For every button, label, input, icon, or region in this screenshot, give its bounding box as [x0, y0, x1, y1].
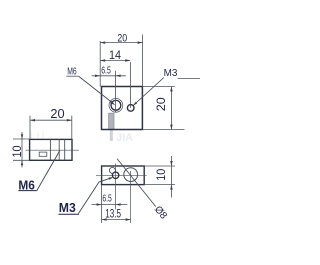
M3 hole circle: [127, 105, 134, 112]
leader M3 bottom view: [78, 178, 112, 214]
dim 13.5: dimension line: [102, 219, 131, 221]
dim 10 left view: dimension line with outside arrows: [21, 132, 23, 168]
dim 20 right: dimension line: [170, 87, 172, 130]
M3 hole bottom view (bold): [112, 172, 118, 178]
left view hole line 1: [49, 139, 51, 160]
M3 hole centerline vertical: [115, 164, 117, 210]
dim 20 left view: extension lines: [29, 116, 31, 140]
watermark bar: [109, 113, 114, 129]
svg-text:6.5: 6.5: [101, 64, 111, 76]
svg-text:M3: M3: [164, 68, 178, 79]
svg-text:14: 14: [109, 48, 121, 62]
left view center line: [26, 149, 80, 151]
svg-text:10: 10: [12, 146, 24, 158]
svg-text:10: 10: [156, 169, 168, 181]
dim 14: dimension line: [100, 60, 130, 62]
D8 hole centerline vertical: [130, 171, 132, 223]
dim 6.5 front: dimension line with outside arrows: [92, 75, 126, 77]
M6 hole pilot circle: [111, 100, 121, 110]
M6 hole thread circle: [109, 98, 123, 112]
leader M6 front: [79, 76, 113, 103]
dim 10 left view: extension lines: [13, 138, 30, 140]
label M6 front underline: [66, 75, 79, 77]
M3 thread circle offset: [109, 167, 115, 173]
left view slot: [39, 152, 47, 156]
svg-text:20: 20: [117, 32, 127, 44]
label M3 underline: [58, 213, 79, 215]
dim 6.5 front: extension line (M6 centerline): [115, 71, 117, 113]
svg-text:LU: LU: [30, 131, 45, 143]
left view hole line 2: [58, 139, 60, 160]
left view hole line 3: [64, 139, 66, 160]
leader M6 left view: [37, 151, 60, 191]
svg-text:6.5: 6.5: [102, 192, 111, 204]
dim 20 left view: dimension line: [30, 119, 72, 121]
front view outline: [102, 87, 143, 130]
D8 hole circle: [124, 168, 138, 182]
dim 10 bottom view: extension lines: [144, 165, 175, 167]
dim 20 top: extension lines: [99, 41, 101, 87]
svg-text:M6: M6: [18, 177, 35, 192]
leader D8: [117, 159, 156, 207]
left view outline: [30, 139, 72, 160]
bottom view center line: [96, 174, 147, 176]
svg-text:JIA: JIA: [116, 132, 133, 144]
label M6 underline: [18, 190, 36, 192]
dim 6.5 bottom: left extension line: [101, 185, 103, 223]
svg-text:20: 20: [50, 106, 64, 121]
bottom view outline: [102, 166, 145, 185]
dim 20 top: dimension line: [100, 42, 142, 44]
watermark bar tail: [110, 130, 113, 142]
leader M3 front: [134, 78, 164, 106]
dim 14: extension line right: [129, 62, 131, 108]
svg-text:M3: M3: [59, 200, 76, 215]
svg-text:20: 20: [156, 97, 168, 111]
dim 6.5 bottom: dimension line outside arrows: [92, 204, 128, 206]
svg-text:13.5: 13.5: [105, 209, 121, 221]
dim 20 right: extension lines: [142, 86, 174, 88]
dim 10 bottom view: dimension line outside arrows: [170, 156, 172, 198]
